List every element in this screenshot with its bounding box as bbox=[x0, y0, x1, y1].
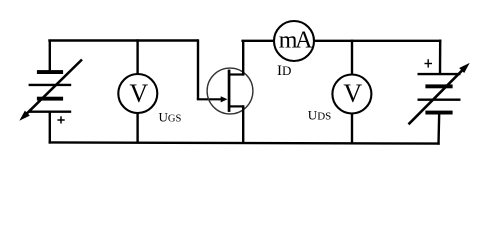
wire: voltmeter V1 branch bottom bbox=[136, 113, 138, 143]
wire: drain vertical up to top rail bbox=[242, 41, 244, 76]
svg-text:mA: mA bbox=[279, 28, 313, 54]
arrow: adjustability of B2 (diagonal, head upper-right) bbox=[409, 63, 470, 124]
channel bar bbox=[228, 70, 231, 112]
ammeter mA (measures I_D) bbox=[274, 21, 314, 61]
wire: right vertical (battery B2 top lead) bbox=[439, 40, 442, 75]
wire: right vertical (battery B2 bottom lead) bbox=[437, 113, 440, 145]
JFET Q1 (transistor) bbox=[207, 68, 253, 114]
wire: voltmeter V1 branch top bbox=[136, 39, 138, 74]
wire: top rail right, segment from ammeter to B2 bbox=[314, 40, 442, 42]
source lead bbox=[229, 105, 244, 107]
wire: left vertical (battery B1 bottom lead) bbox=[49, 112, 51, 144]
svg-text:UDS: UDS bbox=[308, 108, 331, 123]
wire: voltmeter V2 branch bottom bbox=[351, 114, 353, 144]
wire: gate lead horizontal bbox=[197, 98, 222, 100]
wire: voltmeter V2 branch top bbox=[351, 40, 353, 75]
label: + polarity of B1 bbox=[57, 116, 64, 123]
label: + polarity of B2 bbox=[425, 59, 433, 67]
wire: top rail left (gate loop) bbox=[48, 39, 198, 41]
battery B1 adjustable source (left, U_GS supply) bbox=[29, 70, 72, 112]
svg-text:V: V bbox=[343, 79, 362, 108]
svg-text:ID: ID bbox=[277, 63, 291, 79]
voltmeter V1 (measures U_GS) bbox=[118, 74, 157, 113]
svg-text:V: V bbox=[129, 79, 148, 108]
drain lead bbox=[229, 73, 244, 75]
gate arrowhead bbox=[221, 96, 228, 102]
voltmeter V2 (measures U_DS) bbox=[332, 75, 371, 114]
wire: top rail right, segment from drain to ammeter bbox=[241, 40, 274, 42]
wire: left vertical (battery B1 top lead) bbox=[49, 40, 51, 72]
arrow: adjustability of B1 (diagonal, head lower-left) bbox=[19, 60, 82, 121]
wire: gate branch vertical bbox=[197, 39, 199, 99]
wire: bottom rail bbox=[49, 142, 440, 143]
wire: source vertical down to bottom rail bbox=[242, 105, 244, 143]
battery B2 adjustable source (right, U_DS supply) bbox=[418, 74, 461, 114]
